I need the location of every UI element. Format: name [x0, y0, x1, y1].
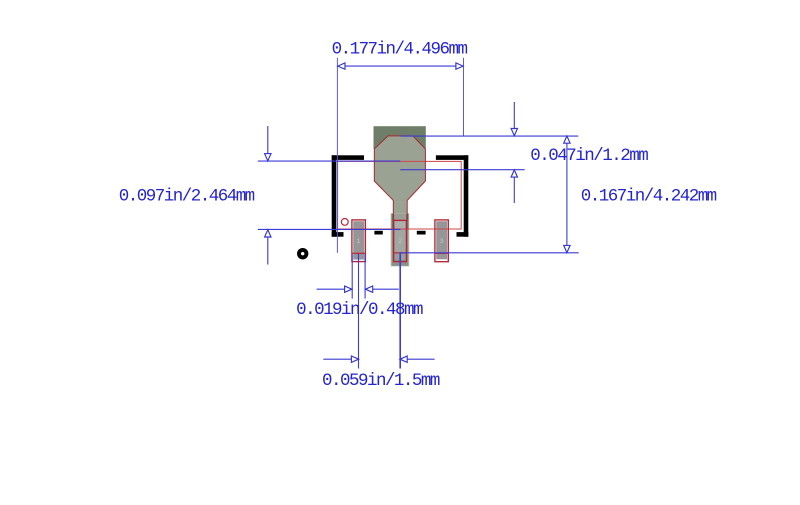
dim body height: top extension: [258, 160, 400, 162]
pad 2 inner mid: [394, 229, 405, 253]
pad 2 mask outline: [394, 220, 407, 261]
arrow pitch left (right-pointing): [351, 356, 358, 362]
dim body height: vertical line upper: [267, 126, 269, 161]
dim pad width: left edge extension: [351, 254, 353, 298]
dim total height: vertical line: [566, 136, 568, 253]
arrow pad width left (right-pointing): [345, 286, 352, 292]
arrow width left: [338, 63, 345, 69]
arrow total top (up): [564, 136, 570, 143]
pad 2 inner low: [394, 253, 405, 260]
pin 1 marker circle: [341, 219, 348, 226]
silkscreen bottom dash 1: [374, 231, 382, 235]
dimension texts: [119, 39, 717, 391]
silkscreen left bar: [332, 155, 337, 236]
dim pad width: dimension line left part: [317, 288, 352, 290]
pad 3 paste bottom line: [435, 252, 448, 254]
pad 3 mask outline: [435, 220, 448, 262]
dim tab: lower stem: [513, 170, 515, 203]
dim width: right extension line: [463, 58, 465, 136]
origin marker donut: [297, 248, 308, 259]
dim pitch: dimension line right part: [400, 358, 435, 360]
svg-text:0.047in/1.2mm: 0.047in/1.2mm: [530, 146, 648, 166]
pad 2 inner upper: [394, 221, 405, 229]
dim tab: upper stem: [513, 102, 515, 136]
dim body height: vertical line lower: [267, 230, 269, 265]
dim body height: bottom extension: [258, 228, 401, 230]
dim tab: top extension: [401, 135, 579, 137]
dim pitch: pad1 center extension: [358, 254, 360, 369]
pad 2 paste bottom line: [394, 252, 407, 254]
silkscreen bottom-right bar: [457, 232, 469, 237]
open arrowheads: [265, 63, 570, 363]
silkscreen top-left bar: [332, 155, 364, 160]
arrow pitch right (left-pointing): [400, 356, 407, 362]
svg-text:0.097in/2.464mm: 0.097in/2.464mm: [119, 187, 255, 207]
dim width: left extension line: [336, 58, 338, 253]
dim tab: lower extension: [400, 169, 524, 171]
svg-text:3: 3: [440, 238, 444, 245]
svg-text:0.177in/4.496mm: 0.177in/4.496mm: [332, 39, 468, 59]
arrow pad width right (left-pointing): [366, 286, 373, 292]
dim pitch: dimension line left part: [323, 358, 358, 360]
arrow tab lower (up): [511, 170, 517, 177]
svg-text:1: 1: [357, 238, 361, 245]
arrow total bottom (down): [564, 245, 570, 252]
silkscreen right bar: [464, 155, 469, 236]
silkscreen bottom dash 2: [417, 231, 426, 235]
center lead assembly band lower: [391, 230, 408, 266]
dim width: dimension line: [337, 65, 463, 67]
tab copper outline (red): [374, 136, 425, 221]
tab copper octagon + center lead neck: [374, 136, 425, 260]
arrow body bottom (up): [265, 230, 271, 237]
body outline (red rect): [338, 161, 462, 229]
silkscreen top-right bar: [436, 155, 468, 160]
pad 3 copper fill: [436, 221, 447, 259]
dim pad width: right edge extension: [364, 254, 366, 298]
center lead assembly halo: [390, 213, 409, 266]
arrow width right: [456, 63, 463, 69]
pad 1 mask outline: [352, 220, 366, 262]
svg-text:0.059in/1.5mm: 0.059in/1.5mm: [322, 371, 440, 391]
pad 1 paste bottom line: [352, 252, 366, 254]
svg-text:0.167in/4.242mm: 0.167in/4.242mm: [581, 187, 717, 207]
arrow body top (down): [265, 154, 271, 161]
pad 1 copper fill: [353, 221, 364, 259]
dim total height: bottom extension: [400, 252, 579, 254]
center lead assembly band upper: [391, 214, 408, 230]
tab assembly (dark green strip): [374, 126, 426, 149]
svg-text:0.019in/0.48mm: 0.019in/0.48mm: [296, 300, 423, 320]
dim pitch: pad2 center extension: [399, 253, 401, 369]
dim pad width: dimension line right part: [365, 288, 398, 290]
pad 2 inner shade above: [394, 214, 406, 221]
svg-text:2: 2: [398, 238, 402, 245]
arrow tab upper (down): [511, 129, 517, 136]
silkscreen bottom-left bar: [332, 232, 344, 237]
